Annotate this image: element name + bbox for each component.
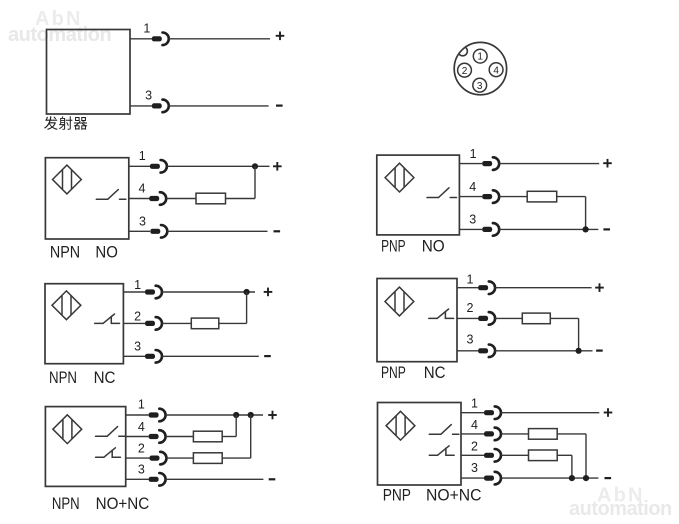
- wire pin3 stub: [457, 350, 478, 352]
- svg-text:3: 3: [469, 212, 476, 226]
- wire load to branch: [222, 436, 236, 438]
- svg-text:1: 1: [467, 273, 474, 287]
- NC contact: [95, 314, 120, 323]
- wire pin1 to +: [167, 165, 270, 167]
- wire pin3 stub: [130, 105, 152, 107]
- wire pin3 stub: [459, 228, 482, 230]
- connector plug pin 3: [150, 225, 167, 238]
- terminal -: [605, 477, 612, 479]
- terminal +: [264, 288, 273, 297]
- wire pin4 stub: [129, 198, 150, 200]
- connector plug pin 4: [484, 428, 501, 441]
- wire pin3 stub: [461, 477, 484, 479]
- svg-text:NO+NC: NO+NC: [96, 494, 150, 513]
- wire branch down to junction 2: [585, 434, 587, 478]
- wire pin4 to load: [166, 198, 196, 200]
- svg-text:automation: automation: [569, 498, 672, 520]
- terminal +: [603, 159, 612, 168]
- svg-text:automation: automation: [8, 24, 111, 46]
- wire branch down to junction 1: [571, 455, 573, 478]
- svg-text:3: 3: [477, 81, 483, 92]
- wire pin2 to load: [501, 454, 529, 456]
- wire pin3 to -: [499, 228, 598, 230]
- svg-text:NPN: NPN: [49, 368, 77, 387]
- optical sensor symbol: [385, 287, 414, 316]
- wire pin1 to +: [162, 291, 255, 293]
- watermark bottom-right AbN automation: [569, 485, 672, 521]
- svg-text:NO: NO: [422, 237, 445, 256]
- terminal +: [273, 162, 282, 171]
- junction 1: [233, 412, 239, 418]
- M12 pin circle 1: [473, 49, 487, 63]
- load resistor NO: [529, 429, 558, 440]
- connector plug pin 2: [145, 317, 162, 330]
- wire pin4 stub: [459, 196, 482, 198]
- wire pin3 to -: [166, 478, 264, 480]
- svg-text:4: 4: [493, 65, 499, 76]
- load resistor NO: [193, 431, 222, 442]
- terminal -: [264, 355, 271, 357]
- load resistor NC: [529, 450, 558, 461]
- connector plug pin 3: [149, 473, 166, 486]
- terminal -: [276, 104, 283, 106]
- wire branch down to pin3: [585, 197, 587, 230]
- junction: [252, 163, 258, 169]
- svg-text:1: 1: [477, 52, 483, 63]
- connector plug pin 3: [478, 345, 495, 358]
- svg-text:2: 2: [471, 439, 478, 453]
- terminal +: [604, 408, 613, 417]
- connector plug pin 1: [482, 157, 499, 170]
- wire pin1 stub: [457, 287, 478, 289]
- emitter box 发射器: [47, 30, 131, 115]
- optical sensor symbol: [386, 411, 415, 440]
- connector plug pin 3: [482, 223, 499, 236]
- wire branch down to pin3: [578, 318, 580, 350]
- wire load to branch: [222, 457, 251, 459]
- label PNP NC: [381, 363, 446, 382]
- NO contact: [427, 188, 457, 198]
- wire pin1 stub: [123, 291, 145, 293]
- svg-text:1: 1: [134, 278, 141, 292]
- connector plug pin 4: [149, 192, 166, 205]
- optical sensor symbol: [385, 163, 414, 192]
- watermark top-left AbN automation: [8, 8, 111, 46]
- svg-text:1: 1: [470, 147, 477, 161]
- label NPN NO: [50, 243, 118, 262]
- svg-text:3: 3: [134, 340, 141, 354]
- svg-text:PNP: PNP: [381, 363, 406, 382]
- svg-text:NC: NC: [424, 363, 446, 382]
- wire pin3 stub: [123, 355, 145, 357]
- terminal -: [603, 228, 610, 230]
- wire pin1 stub: [459, 163, 482, 165]
- sensor box PNP NO+NC: [378, 403, 462, 486]
- NO contact: [96, 427, 126, 437]
- wire branch down to load: [254, 166, 256, 198]
- connector plug pin 2: [484, 449, 501, 462]
- label PNP NO: [381, 237, 445, 256]
- load resistor: [522, 313, 550, 324]
- sensor box NPN NC: [45, 284, 123, 364]
- NC contact: [429, 309, 454, 318]
- svg-text:2: 2: [138, 442, 145, 456]
- svg-text:1: 1: [471, 397, 478, 411]
- wire pin4 to load: [501, 433, 529, 435]
- junction: [576, 348, 582, 354]
- svg-text:4: 4: [469, 180, 476, 194]
- label NPN NO+NC: [52, 494, 149, 513]
- connector plug pin 1: [145, 286, 162, 299]
- wire pin3 to -: [169, 105, 269, 107]
- wire pin1 to +: [501, 412, 599, 414]
- terminal -: [269, 478, 276, 480]
- load resistor: [527, 191, 557, 202]
- wire load to branch: [557, 454, 572, 456]
- wire pin4 to load: [166, 436, 194, 438]
- svg-text:3: 3: [471, 461, 478, 475]
- wire pin4 stub: [126, 436, 149, 438]
- wire pin3 to -: [167, 230, 267, 232]
- svg-text:NC: NC: [94, 368, 116, 387]
- wire pin3 stub: [126, 478, 149, 480]
- svg-text:2: 2: [462, 66, 468, 77]
- optical sensor symbol: [52, 291, 81, 320]
- wire pin4 to load: [499, 196, 527, 198]
- connector plug pin 1: [149, 409, 166, 422]
- wire pin1 stub: [461, 412, 484, 414]
- sensor box NPN NO+NC: [45, 407, 125, 487]
- svg-text:NPN: NPN: [52, 494, 80, 513]
- svg-text:4: 4: [139, 182, 146, 196]
- sensor box PNP NO: [377, 155, 460, 235]
- NO contact: [96, 190, 126, 200]
- wire pin1 stub: [130, 38, 152, 40]
- optical sensor symbol: [53, 165, 82, 194]
- wire pin2 to load: [495, 317, 522, 319]
- wire branch down to load: [246, 292, 248, 323]
- wire pin1 to +: [169, 38, 270, 40]
- M12 pin circle 3: [473, 78, 487, 92]
- label NPN NC: [49, 368, 116, 387]
- wire pin3 stub: [129, 230, 150, 232]
- wire pin3 to -: [495, 350, 592, 352]
- wire pin2 to load: [162, 322, 191, 324]
- wire pin3 to -: [162, 355, 259, 357]
- wire pin2 stub: [461, 454, 484, 456]
- connector plug pin 2: [150, 452, 167, 465]
- wire load to branch: [219, 322, 247, 324]
- M12 pin circle 4: [489, 63, 503, 77]
- wire branch up to junction 1: [235, 415, 237, 437]
- optical sensor symbol: [53, 415, 82, 444]
- label 发射器 (emitter): [44, 116, 87, 130]
- wire pin2 stub: [123, 322, 145, 324]
- svg-text:2: 2: [134, 310, 141, 324]
- wire pin2 to load: [167, 457, 194, 459]
- sensor box NPN NO: [45, 158, 128, 239]
- svg-text:3: 3: [138, 463, 145, 477]
- svg-text:3: 3: [145, 89, 152, 103]
- wire load to branch: [550, 317, 578, 319]
- wire pin1 to +: [499, 163, 599, 165]
- NO contact: [429, 425, 459, 435]
- wire branch up to junction 2: [250, 415, 252, 458]
- NC contact: [429, 446, 454, 455]
- wire pin3 to -: [501, 477, 598, 479]
- connector plug pin 4: [149, 430, 166, 443]
- wire load to branch: [557, 196, 586, 198]
- label PNP NO+NC: [383, 486, 482, 505]
- junction: [244, 289, 250, 295]
- wire pin4 stub: [461, 433, 484, 435]
- connector plug pin 3: [145, 350, 162, 363]
- svg-text:PNP: PNP: [381, 237, 406, 256]
- connector plug pin 1: [152, 33, 169, 46]
- connector plug pin 1: [478, 281, 495, 294]
- wire pin1 stub: [126, 414, 149, 416]
- NC contact: [96, 448, 121, 457]
- junction: [583, 226, 589, 232]
- svg-text:2: 2: [467, 301, 474, 315]
- load resistor NC: [193, 453, 222, 464]
- terminal -: [596, 350, 603, 352]
- connector plug pin 4: [482, 190, 499, 203]
- connector plug pin 1: [150, 160, 167, 173]
- svg-text:4: 4: [138, 420, 145, 434]
- sensor box PNP NC: [377, 279, 457, 362]
- M12 pin circle 2: [458, 63, 472, 77]
- junction 2: [248, 412, 254, 418]
- wire pin1 stub: [129, 165, 150, 167]
- terminal +: [595, 283, 604, 292]
- svg-text:1: 1: [139, 149, 146, 163]
- junction 2: [583, 475, 589, 481]
- wire pin1 to +: [166, 414, 263, 416]
- svg-text:1: 1: [143, 22, 150, 36]
- svg-text:1: 1: [138, 398, 145, 412]
- load resistor: [191, 318, 219, 329]
- wire pin1 to +: [495, 287, 591, 289]
- terminal -: [274, 230, 281, 232]
- svg-text:3: 3: [139, 215, 146, 229]
- connector plug pin 3: [152, 100, 169, 113]
- wire pin2 stub: [457, 317, 478, 319]
- wire load to branch: [226, 198, 256, 200]
- terminal +: [276, 32, 285, 41]
- connector plug pin 3: [484, 472, 501, 485]
- connector plug pin 1: [484, 406, 501, 419]
- wire pin2 stub: [126, 457, 150, 459]
- M12 connector face: [454, 42, 506, 94]
- svg-text:3: 3: [467, 333, 474, 347]
- junction 1: [569, 475, 575, 481]
- svg-text:PNP: PNP: [383, 486, 411, 505]
- svg-text:NPN: NPN: [50, 243, 80, 262]
- svg-text:4: 4: [471, 418, 478, 432]
- connector plug pin 2: [478, 312, 495, 325]
- terminal +: [268, 411, 277, 420]
- wire load to branch: [557, 433, 586, 435]
- svg-text:NO: NO: [95, 243, 118, 262]
- load resistor: [196, 193, 226, 204]
- svg-text:NO+NC: NO+NC: [426, 486, 482, 505]
